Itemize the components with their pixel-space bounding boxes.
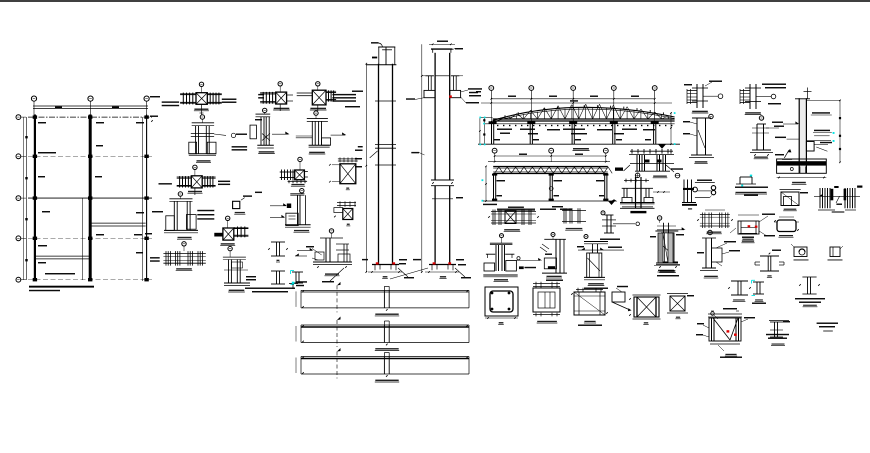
detail 1 bracket assembly — [329, 229, 333, 233]
figure 1 clip — [794, 247, 807, 257]
small post detail right — [770, 321, 783, 323]
muro M-1 wall — [799, 98, 806, 173]
truss B column annotations — [497, 180, 506, 181]
detalle F splice — [630, 150, 673, 152]
left margin mark bottom — [145, 233, 152, 234]
truss A cyan markers left — [479, 117, 481, 119]
cercha 1 column — [709, 114, 713, 118]
small tee W1 — [271, 241, 285, 243]
truss B labels — [483, 204, 497, 205]
tee column detail — [584, 235, 588, 239]
truss A right dimension — [670, 113, 672, 144]
truss A arched top chord — [493, 107, 675, 120]
column elevation C1 shaft — [378, 64, 380, 265]
detaille 13 bolted plan — [700, 214, 730, 216]
plate strip label — [375, 348, 398, 349]
plate strip rail — [301, 356, 469, 358]
plate strip dimension — [302, 357, 304, 359]
small tee W3 cyan — [292, 271, 303, 273]
detail nr 1b plan — [316, 82, 320, 86]
plate strip label — [375, 314, 398, 315]
muro M-1 footing — [777, 159, 827, 173]
column head connection detail — [624, 180, 649, 182]
truss B baseline — [483, 200, 614, 202]
section A stepped plate — [708, 230, 712, 234]
pin connection detail — [683, 180, 685, 203]
section C2 — [314, 111, 318, 115]
section M2 assembly — [551, 233, 555, 237]
base plate plan 2 — [576, 289, 603, 291]
column elevation C2 base — [429, 264, 456, 266]
bottom small cluster — [769, 320, 789, 322]
detail 4a column — [228, 246, 232, 250]
muro M-1 left leaders — [783, 123, 798, 125]
plate strip rail — [301, 289, 469, 291]
bottom-right text block — [817, 323, 838, 324]
floor plan grid bubble B — [88, 96, 93, 101]
footing S-4 plan — [485, 287, 518, 316]
cercha 2 box — [738, 221, 759, 234]
small xbox Cb — [667, 293, 688, 295]
figure 2 clip — [830, 247, 840, 257]
gusset plate with arrow — [612, 292, 625, 302]
floor plan grid line 1 — [28, 116, 152, 118]
section C — [200, 115, 204, 119]
column elevation C1 dimension line — [365, 64, 367, 272]
column elevation C2 splice joint — [431, 179, 454, 181]
left margin tick 2 — [150, 96, 160, 97]
plate strip mid stiffener — [383, 357, 385, 375]
muro M-1 mast — [807, 88, 809, 100]
floor plan column line A — [34, 115, 36, 282]
section E — [178, 192, 182, 196]
truss A chord connection plates — [489, 121, 497, 124]
muro M-1 mid line — [806, 140, 831, 142]
vertical plate detail — [601, 211, 605, 215]
column section B2 xbox — [337, 202, 356, 204]
floor plan bottom label — [29, 286, 94, 288]
floor plan grid line 3 — [28, 197, 152, 199]
truss A grid verticals — [490, 90, 492, 121]
column elevation C1 cap — [378, 46, 395, 48]
Cal tee section — [760, 255, 779, 257]
muro M-1 top dimension — [806, 99, 840, 101]
detaille A box — [780, 189, 801, 191]
floor plan vertical dimension line — [26, 117, 28, 280]
detail nr 2 plan — [193, 165, 197, 169]
V-lam tee pair 1 — [731, 280, 748, 282]
detail nr 1 plan — [199, 82, 203, 86]
floor plan column line B — [89, 115, 92, 282]
truss A bolt row — [497, 125, 498, 126]
detalle 1b I-beam — [749, 84, 751, 109]
section 1Ab shaded column — [655, 230, 678, 232]
section M assembly — [500, 234, 504, 238]
plan PL-13 — [777, 220, 796, 232]
detail 2 splice — [182, 242, 186, 246]
detalle 13a splice — [562, 210, 586, 212]
floor plan secondary column line — [82, 198, 84, 280]
truss B columns — [493, 174, 495, 201]
muro M-1 label — [792, 182, 806, 184]
plate strip dashed line — [336, 285, 338, 312]
truss A grid bubbles — [489, 86, 494, 91]
truss A annotation text row — [497, 129, 512, 130]
truss B cyan marker — [482, 179, 484, 181]
truss A dimension line 1 — [491, 98, 654, 100]
truss A cyan markers right — [674, 112, 676, 114]
floor plan beam left — [36, 255, 90, 257]
detail B post assembly — [300, 189, 304, 193]
detail B xbox — [298, 157, 302, 161]
floor plan left grid bubbles — [16, 115, 21, 120]
truss A purlin ticks — [504, 115, 506, 118]
detail 1A column — [657, 216, 661, 220]
strip top-left mini detail — [289, 283, 298, 285]
base plate plan CA — [533, 283, 560, 285]
detail nr 1a plan — [278, 82, 282, 86]
braced pair detail — [819, 188, 821, 208]
column elevation C1 base — [372, 264, 399, 266]
section C1 — [263, 108, 267, 112]
floor plan grid line 4 dashed — [28, 237, 152, 239]
column elevation C2 dimension line — [421, 44, 423, 272]
plate strip mid stiffener — [383, 325, 385, 343]
muro M-1 bottom dimension — [777, 177, 827, 179]
plate strip dimension — [302, 291, 304, 293]
column elevation C2 cap — [429, 43, 455, 45]
detalle 1a I-beam — [696, 84, 698, 108]
muro M-1 hatch leader — [784, 150, 789, 158]
truss B diagonals — [495, 167, 499, 174]
muro M-1 cyan markers — [833, 132, 835, 134]
u-brace channel — [739, 177, 741, 184]
truss B dimension lines — [495, 155, 606, 157]
floor plan column line C — [146, 115, 148, 282]
floor plan annotation marks — [38, 122, 46, 123]
floor plan grid bubble C — [144, 96, 149, 101]
plate detail small — [233, 201, 240, 208]
top border line — [0, 0, 870, 2]
truss B grid bubbles — [492, 148, 497, 153]
V-lam tee pair 2 cyan — [753, 281, 764, 283]
truss A web verticals — [495, 119, 497, 120]
small I post lower — [802, 276, 816, 278]
floor plan top double beam — [33, 105, 148, 107]
floor plan grid line 5 dashed — [28, 279, 152, 281]
column section B1 xbox — [338, 158, 358, 160]
truss A label — [573, 148, 589, 150]
muro M-1 right leaders — [811, 114, 832, 116]
floor plan grid bubble A — [31, 96, 36, 101]
truss B chords — [493, 165, 608, 167]
plate strip label — [375, 380, 398, 381]
plate strip dashed line — [336, 320, 338, 347]
cercha small text — [739, 233, 757, 234]
u-brace text block — [735, 187, 768, 188]
truss A lattice diagonals — [496, 118, 503, 119]
floor plan grid line 2 dashed — [28, 155, 152, 157]
column elevation C2 bracket pads — [424, 90, 435, 97]
floor plan beam right — [92, 222, 146, 224]
column elevation C2 side brackets — [425, 75, 434, 77]
floor plan column stubs — [33, 115, 37, 118]
truss B left dimension — [485, 166, 487, 201]
detalle 13 splice left — [491, 211, 536, 213]
muro M-1 pad — [806, 142, 814, 152]
plate strip dashed line — [336, 352, 338, 379]
column elevation C1 splice — [375, 143, 396, 145]
truss A columns — [491, 121, 493, 144]
plate strip dimension — [302, 325, 304, 327]
column elevation C2 shaft — [434, 53, 436, 180]
truss A left dimension — [479, 118, 481, 145]
truss A dimension line 2 — [481, 102, 672, 104]
tall xbox Cal — [633, 294, 661, 296]
plate strip rail — [301, 324, 469, 326]
leader arrows near W1 — [297, 250, 312, 252]
V-brace assembly — [708, 313, 742, 315]
small tee W2 — [271, 270, 285, 272]
truss A baseline — [478, 143, 680, 145]
left margin tick 1 — [150, 116, 158, 117]
truss A bottom chord — [493, 118, 675, 120]
plate strip mid stiffener — [383, 290, 385, 308]
detail 4 plan — [226, 216, 230, 220]
small box bottom — [769, 319, 771, 321]
post with base detail — [759, 116, 763, 120]
truss A column annotations — [494, 139, 500, 140]
